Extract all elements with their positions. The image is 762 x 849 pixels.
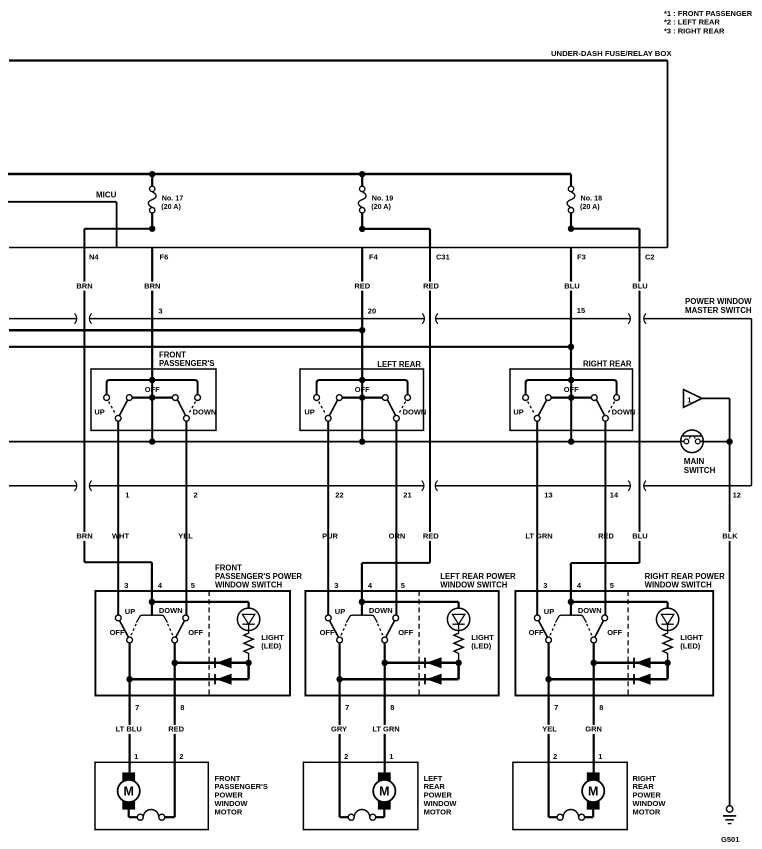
resistor [454, 630, 463, 662]
motor M [378, 772, 391, 782]
svg-text:BLK: BLK [722, 532, 738, 541]
svg-text:3: 3 [543, 581, 547, 590]
svg-text:UP: UP [513, 408, 523, 417]
svg-text:(20 A): (20 A) [371, 202, 391, 211]
junction main switch / ground wire [726, 438, 732, 444]
svg-text:MICU: MICU [96, 191, 117, 200]
battery feed bus [8, 173, 571, 176]
svg-text:OFF: OFF [398, 628, 413, 637]
svg-text:5: 5 [191, 581, 195, 590]
svg-text:2: 2 [194, 490, 198, 499]
connector with jumper arc [557, 814, 563, 820]
svg-text:2: 2 [179, 752, 183, 761]
bus RED (to passenger switch feed) [9, 327, 365, 333]
diode D1 [214, 658, 216, 668]
fuse No.18 (20 A) [567, 174, 602, 229]
motor box outline [513, 762, 627, 829]
diode D1 [633, 658, 635, 668]
common wire to main-switch line [361, 380, 363, 442]
svg-text:PASSENGER'S: PASSENGER'S [159, 359, 214, 368]
diode D2 [214, 674, 216, 684]
wire BRN F6 [151, 248, 153, 381]
svg-text:OFF: OFF [110, 628, 125, 637]
svg-text:8: 8 [599, 703, 603, 712]
svg-text:FRONT: FRONT [159, 350, 186, 359]
svg-text:20: 20 [368, 307, 376, 316]
junction feed dot [568, 377, 574, 383]
svg-text:WINDOW SWITCH: WINDOW SWITCH [440, 580, 507, 589]
svg-text:13: 13 [544, 490, 552, 499]
svg-text:UP: UP [94, 408, 104, 417]
svg-text:*3 : RIGHT REAR: *3 : RIGHT REAR [664, 26, 725, 35]
RIGHT REAR POWER WINDOW SWITCH [515, 572, 725, 763]
wire label RED [423, 282, 439, 291]
svg-text:12: 12 [733, 490, 741, 499]
wire BLK to ground [729, 442, 731, 806]
svg-text:C2: C2 [645, 253, 655, 262]
wire label ORN [389, 532, 405, 541]
OFF contacts [546, 637, 552, 643]
svg-text:G501: G501 [721, 835, 739, 844]
MICU node [8, 191, 117, 248]
pin 8 wire [384, 643, 386, 762]
branch fuse19 to C31 [362, 229, 430, 248]
junction feed dot [359, 377, 365, 383]
svg-text:F3: F3 [577, 253, 586, 262]
LED lamp [656, 608, 678, 630]
svg-text:1: 1 [687, 395, 691, 404]
wire label GRY [331, 725, 347, 734]
svg-text:F6: F6 [160, 253, 169, 262]
throw contacts [534, 415, 540, 421]
svg-text:1: 1 [125, 490, 129, 499]
contacts [523, 395, 529, 401]
motor feed wires [593, 762, 595, 772]
wire label WHT [113, 532, 129, 541]
pin 8 wire [593, 643, 595, 762]
svg-text:GRN: GRN [585, 725, 602, 734]
svg-text:BLU: BLU [632, 532, 647, 541]
under-dash fuse/relay box [9, 49, 672, 247]
wire label LT GRN [371, 725, 400, 734]
svg-text:2: 2 [344, 752, 348, 761]
dashed separator [627, 591, 629, 696]
svg-text:5: 5 [401, 581, 405, 590]
LED lamp [447, 608, 469, 630]
svg-text:RED: RED [423, 532, 439, 541]
throw contacts [115, 415, 121, 421]
svg-text:BRN: BRN [76, 281, 92, 290]
svg-text:*1 : FRONT PASSENGER: *1 : FRONT PASSENGER [664, 9, 753, 18]
svg-text:DOWN: DOWN [193, 408, 217, 417]
wire BLU C2 [571, 248, 640, 592]
svg-text:3: 3 [124, 581, 128, 590]
svg-text:UP: UP [335, 607, 345, 616]
bail (feed strap) [317, 380, 408, 395]
master switch unit LEFT REAR (SW2) [300, 360, 426, 442]
OFF contacts [127, 637, 133, 643]
DOWN contact [393, 615, 399, 621]
svg-text:M: M [123, 785, 133, 799]
wire RED F4 [361, 248, 363, 381]
svg-text:22: 22 [335, 490, 343, 499]
OFF common bar [129, 397, 175, 399]
wire label YEL [178, 532, 194, 541]
blades [538, 620, 547, 637]
contacts [104, 395, 110, 401]
door switch box outline [515, 591, 713, 696]
svg-text:7: 7 [345, 703, 349, 712]
switch box outline [91, 369, 216, 430]
svg-text:(LED): (LED) [680, 642, 700, 651]
diode D1 [424, 658, 426, 668]
blades [329, 620, 338, 637]
bus to main switch (line D) [9, 438, 730, 444]
wire label RED [354, 282, 370, 291]
wire BRN N4 [84, 248, 151, 592]
diode bus upper [385, 662, 459, 665]
svg-text:MOTOR: MOTOR [633, 807, 661, 816]
diode bus upper [594, 662, 668, 665]
DOWN contact [183, 615, 189, 621]
wire label BLK [722, 532, 738, 541]
svg-text:OFF: OFF [564, 385, 579, 394]
wire label RED [423, 532, 439, 541]
svg-text:15: 15 [577, 306, 585, 315]
LED lamp [237, 608, 259, 630]
svg-text:7: 7 [135, 703, 139, 712]
motor box outline [95, 762, 208, 829]
bus BLU (to rear switch feeds) [9, 344, 574, 350]
branch fuse18 to C2 [571, 229, 640, 248]
svg-text:OFF: OFF [607, 628, 622, 637]
fuse No.19 (20 A) [358, 171, 393, 229]
svg-text:C31: C31 [436, 253, 450, 262]
svg-text:(20 A): (20 A) [161, 202, 181, 211]
DOWN contact [602, 615, 608, 621]
diode D2 [424, 674, 426, 684]
wire LT GRN (pin13) [536, 421, 538, 615]
OFF contacts [337, 637, 343, 643]
svg-text:1: 1 [134, 752, 138, 761]
svg-text:WINDOW SWITCH: WINDOW SWITCH [215, 580, 282, 589]
wire label BLU [632, 282, 648, 291]
svg-text:BRN: BRN [144, 281, 160, 290]
svg-text:WHT: WHT [112, 532, 129, 541]
connector with jumper arc [348, 814, 354, 820]
svg-text:OFF: OFF [355, 385, 370, 394]
ground G501 [721, 806, 739, 844]
common wire to main-switch line [570, 380, 572, 442]
wire WHT (pin1) [117, 421, 119, 615]
svg-text:M: M [588, 785, 598, 799]
FRONT PASSENGER POWER WINDOW SWITCH [95, 563, 302, 762]
svg-text:5: 5 [610, 581, 614, 590]
wire label BRN [77, 532, 93, 541]
svg-text:(20 A): (20 A) [580, 202, 600, 211]
UP contact [534, 615, 540, 621]
wire PUR (pin22) [327, 421, 329, 615]
master switch unit RIGHT REAR (SW3) [510, 360, 635, 442]
svg-text:OFF: OFF [188, 628, 203, 637]
wire RED C31 [362, 248, 430, 592]
svg-text:OFF: OFF [529, 628, 544, 637]
svg-text:LT GRN: LT GRN [372, 725, 399, 734]
door switch box outline [305, 591, 498, 696]
svg-text:DOWN: DOWN [159, 606, 183, 615]
svg-text:UP: UP [304, 408, 314, 417]
lamp feed bar [152, 601, 249, 603]
svg-text:DOWN: DOWN [612, 408, 636, 417]
dashed separator [418, 591, 420, 696]
motor M [122, 772, 135, 782]
pin 8 wire [174, 643, 176, 762]
svg-text:OFF: OFF [320, 628, 335, 637]
wire label LT BLU [114, 725, 143, 734]
wire label RED [598, 532, 614, 541]
svg-text:21: 21 [403, 490, 411, 499]
resistor [244, 630, 253, 662]
pin 7 wire [129, 643, 131, 762]
svg-text:RIGHT REAR: RIGHT REAR [583, 360, 632, 369]
svg-text:3: 3 [158, 307, 162, 316]
lamp feed bar [362, 601, 459, 603]
svg-text:LEFT REAR: LEFT REAR [377, 360, 421, 369]
svg-text:POWER WINDOW: POWER WINDOW [685, 297, 752, 306]
svg-text:BLU: BLU [564, 281, 579, 290]
svg-text:MASTER SWITCH: MASTER SWITCH [685, 306, 752, 315]
wire RED (pin14) [604, 421, 606, 615]
svg-text:UP: UP [544, 607, 554, 616]
wire label BRN [144, 282, 160, 291]
wire label BLU [564, 282, 580, 291]
svg-text:M: M [379, 785, 389, 799]
svg-text:(LED): (LED) [261, 642, 281, 651]
svg-text:3: 3 [334, 581, 338, 590]
svg-text:WINDOW SWITCH: WINDOW SWITCH [645, 580, 712, 589]
svg-text:YEL: YEL [542, 725, 557, 734]
junction feed dot [149, 377, 155, 383]
blades [119, 620, 128, 637]
motor M [587, 772, 600, 782]
svg-text:(LED): (LED) [471, 642, 491, 651]
OFF common bar [548, 397, 594, 399]
svg-text:DOWN: DOWN [578, 606, 602, 615]
switch box outline [300, 369, 424, 430]
legend note [664, 9, 753, 36]
svg-text:RED: RED [423, 281, 439, 290]
LEFT REAR POWER WINDOW SWITCH [305, 572, 516, 763]
switch box outline [510, 369, 633, 430]
svg-text:BRN: BRN [76, 532, 92, 541]
FRONT PASSENGER POWER WINDOW MOTOR [95, 752, 268, 829]
svg-text:GRY: GRY [331, 725, 347, 734]
blades [119, 400, 127, 416]
svg-text:8: 8 [390, 703, 394, 712]
wire label LT GRN [524, 532, 553, 541]
motor box outline [303, 762, 418, 829]
svg-text:8: 8 [180, 703, 184, 712]
LEFT REAR POWER WINDOW MOTOR [303, 752, 457, 829]
power window master switch box [9, 297, 752, 491]
wire ORN (pin21) [395, 421, 397, 615]
pin 7 wire [339, 643, 341, 762]
OFF common bar [339, 397, 385, 399]
master switch unit FRONT PASSENGER (SW1) [91, 350, 216, 441]
pin 7 wire [547, 643, 549, 762]
contacts [314, 395, 320, 401]
wire label BRN [77, 282, 93, 291]
svg-text:*2 : LEFT REAR: *2 : LEFT REAR [664, 18, 720, 27]
svg-text:RED: RED [168, 725, 184, 734]
wire MICU/fuse junction to N4 [84, 229, 152, 248]
rocker actuator [136, 615, 167, 622]
svg-text:N4: N4 [89, 252, 99, 261]
svg-text:BLU: BLU [632, 281, 647, 290]
wire label GRN [586, 725, 602, 734]
svg-text:LT GRN: LT GRN [525, 532, 552, 541]
svg-text:2: 2 [553, 752, 557, 761]
off-page connector arrow 1 [684, 390, 730, 442]
diode bus lower [549, 678, 668, 681]
svg-text:DOWN: DOWN [369, 606, 393, 615]
connector with jumper arc [137, 814, 143, 820]
door switch box outline [95, 591, 290, 696]
svg-text:1: 1 [598, 752, 602, 761]
pin 4 feed wire and junction [570, 591, 572, 615]
diode bus lower [130, 678, 249, 681]
lamp feed bar [571, 601, 668, 603]
throw contacts [325, 415, 331, 421]
wire label PUR [322, 532, 338, 541]
RIGHT REAR POWER WINDOW MOTOR [513, 752, 666, 829]
svg-text:F4: F4 [369, 253, 379, 262]
common wire to main-switch line [151, 380, 153, 442]
motor feed wires [129, 762, 131, 772]
svg-text:LT BLU: LT BLU [116, 725, 142, 734]
svg-text:PUR: PUR [322, 532, 338, 541]
UP contact [115, 615, 121, 621]
wire YEL (pin2) [185, 421, 187, 615]
svg-text:RED: RED [354, 281, 370, 290]
wire label BLU [632, 532, 648, 541]
svg-text:14: 14 [610, 490, 619, 499]
motor feed wires [384, 762, 386, 772]
svg-text:SWITCH: SWITCH [684, 466, 716, 475]
svg-text:UP: UP [125, 607, 135, 616]
main switch [681, 430, 716, 475]
fuse No.17 (20 A) [148, 171, 183, 229]
UP contact [325, 615, 331, 621]
svg-text:OFF: OFF [145, 385, 160, 394]
diode bus upper [175, 662, 249, 665]
rocker actuator [555, 615, 586, 622]
bail (feed strap) [526, 380, 617, 395]
svg-text:1: 1 [389, 752, 393, 761]
dashed separator [208, 591, 210, 696]
rocker actuator [346, 615, 377, 622]
blades [329, 400, 337, 416]
bail (feed strap) [107, 380, 198, 395]
svg-text:7: 7 [554, 703, 558, 712]
blades [538, 400, 546, 416]
diode D2 [633, 674, 635, 684]
svg-text:MOTOR: MOTOR [424, 807, 452, 816]
svg-text:MOTOR: MOTOR [215, 807, 243, 816]
wire BLU F3 [570, 248, 572, 381]
pin 4 feed wire and junction [361, 591, 363, 615]
resistor [663, 630, 672, 662]
wire label RED [168, 725, 184, 734]
diode bus lower [340, 678, 459, 681]
wire label YEL [542, 725, 558, 734]
svg-text:DOWN: DOWN [403, 408, 427, 417]
svg-text:UNDER-DASH FUSE/RELAY BOX: UNDER-DASH FUSE/RELAY BOX [551, 49, 672, 58]
pin 4 feed wire and junction [151, 591, 153, 615]
